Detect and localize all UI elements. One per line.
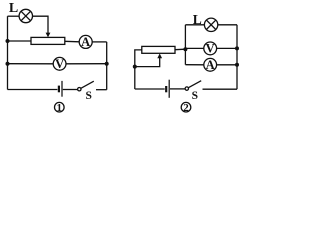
node: right rail voltmeter junction (circuit 2) [235, 46, 239, 50]
wire: right rail bottom to switch contact [203, 88, 238, 90]
switch S1 blade [81, 81, 94, 88]
battery B2 short thick plate [165, 86, 167, 92]
wire: voltmeter to right rail [66, 63, 107, 65]
label circled 1 [55, 102, 65, 114]
wire: slider horizontal run [135, 57, 160, 66]
switch S1 pivot [78, 88, 81, 91]
wire: switch contact to right rail corner [96, 89, 107, 91]
battery B2 long thin plate [168, 80, 170, 98]
wire: inner rail to voltmeter V2 [185, 47, 203, 49]
voltmeter V2 [204, 42, 217, 55]
wire: rheostat R2 right terminal to inner rail [175, 48, 185, 51]
wire: inner rail to lamp L2 [185, 24, 204, 26]
node: left rail to rheostat junction [6, 39, 10, 43]
label circled 2 [181, 102, 191, 114]
svg-text:S: S [192, 90, 198, 102]
node: right rail ammeter junction (circuit 2) [235, 63, 239, 67]
svg-text:L: L [9, 1, 18, 16]
wire: battery B2 to switch [170, 88, 185, 90]
node: left rail voltmeter junction [6, 62, 10, 66]
node: inner rail junction [183, 47, 187, 51]
wire: lamp L2 to right rail [218, 24, 237, 26]
svg-text:V: V [55, 57, 64, 71]
switch S2 pivot [185, 87, 188, 90]
wire: lamp right, bend down to slider [33, 16, 49, 34]
wire: rheostat R2 left terminal down to battery [135, 50, 142, 89]
ammeter A2 [204, 58, 217, 71]
wire: inner rail bottom to ammeter A2 [185, 64, 203, 66]
resistor (rheostat) R1 body [31, 37, 65, 44]
battery B1 short thick plate [58, 86, 60, 93]
wire: ammeter A2 to right rail [217, 64, 237, 66]
wire: circuit 1 bottom row left of battery [8, 89, 58, 91]
battery B1 long thin plate [61, 81, 63, 97]
wire: circuit 1 top row, rail to lamp [8, 15, 20, 17]
slider arrow (points down onto rheostat R1) [46, 33, 51, 38]
slider arrow (points up onto rheostat R2) [157, 54, 162, 59]
resistor (rheostat) R2 body [142, 46, 175, 53]
svg-text:L: L [193, 12, 202, 27]
wire: rheostat right terminal to ammeter [65, 40, 79, 43]
node: slider wire joins left vertical [133, 65, 137, 69]
wire: battery to switch [63, 89, 78, 91]
svg-text:A: A [206, 58, 215, 72]
node: right rail voltmeter junction [105, 62, 109, 66]
svg-text:V: V [206, 42, 215, 56]
wire: left rail to rheostat left terminal [8, 40, 32, 42]
svg-text:1: 1 [57, 102, 63, 114]
wire: circuit 2 bottom row left of battery [135, 88, 165, 90]
lamp L1 [19, 9, 32, 22]
wire: voltmeter V2 to right rail [217, 47, 237, 49]
wire: circuit 1 left rail [7, 16, 9, 89]
wire: circuit 1 right rail [106, 42, 108, 90]
wire: circuit 2 right rail [236, 25, 238, 89]
wire: left rail to voltmeter [8, 63, 54, 65]
wire: ammeter to right rail [92, 41, 107, 43]
lamp L2 [204, 18, 217, 31]
switch S2 blade [188, 81, 201, 88]
voltmeter V1 [53, 57, 66, 70]
ammeter A1 [79, 35, 92, 48]
svg-text:A: A [81, 35, 90, 49]
wire: circuit 2 inner left rail [184, 25, 186, 65]
svg-text:S: S [85, 90, 91, 102]
svg-text:2: 2 [183, 102, 189, 114]
